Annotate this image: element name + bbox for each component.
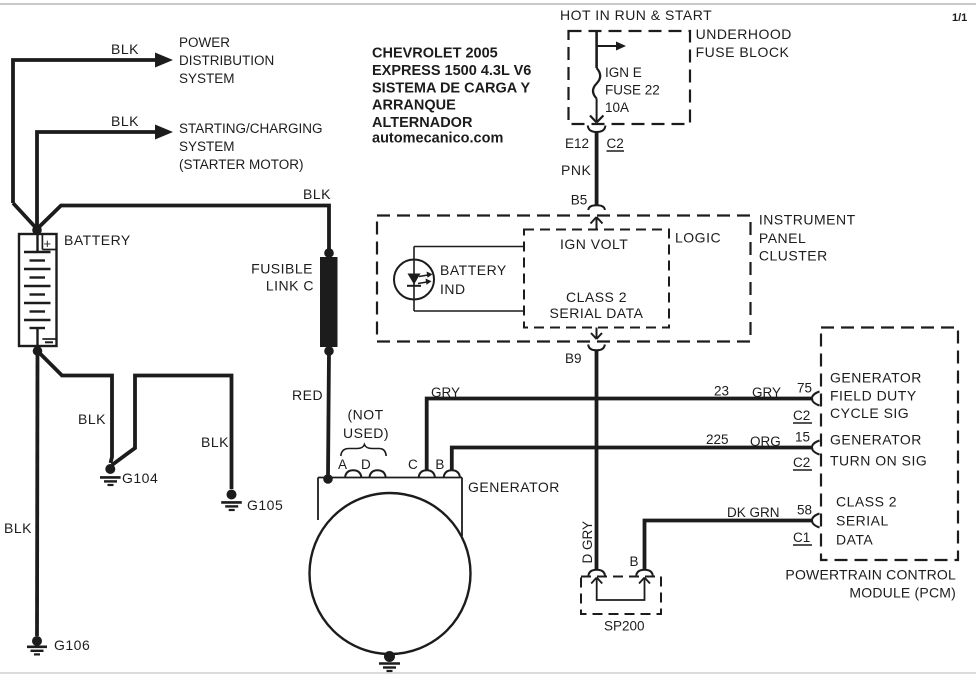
svg-text:SYSTEM: SYSTEM — [179, 71, 235, 86]
svg-text:IGN E: IGN E — [605, 65, 642, 80]
label INSTRUMENT PANEL CLUSTER — [759, 212, 856, 264]
wire DK GRN SP200 to PCM 58 — [645, 521, 814, 570]
svg-text:PANEL: PANEL — [759, 230, 806, 246]
generator pin C — [419, 470, 435, 477]
svg-text:FUSE 22: FUSE 22 — [605, 83, 660, 98]
svg-text:DATA: DATA — [836, 532, 873, 548]
svg-text:TURN ON SIG: TURN ON SIG — [830, 453, 927, 469]
svg-text:75: 75 — [797, 381, 812, 396]
svg-text:CLASS 2: CLASS 2 — [836, 494, 897, 510]
svg-text:B9: B9 — [565, 351, 582, 366]
connector C1 pin58 — [812, 514, 820, 528]
feed branch arrow — [597, 45, 617, 47]
svg-text:IND: IND — [440, 281, 466, 297]
ground G105 — [221, 490, 242, 511]
generator pin D — [369, 470, 385, 477]
svg-text:225: 225 — [706, 432, 729, 447]
label GENERATOR TURN ON SIG — [830, 432, 927, 469]
wire battery ind vertical — [413, 247, 415, 312]
svg-text:B5: B5 — [571, 193, 588, 208]
arrowhead power distribution — [155, 53, 173, 68]
node fusible link top — [324, 248, 334, 258]
label (NOT USED) — [343, 407, 389, 442]
logic dashed box — [524, 230, 669, 328]
B5 entry arrow — [596, 217, 598, 230]
label C1 pin58 — [793, 530, 810, 545]
underhood fuse block dashed box — [569, 31, 691, 124]
svg-text:POWER: POWER — [179, 35, 230, 50]
svg-text:GRY: GRY — [752, 385, 781, 400]
node battery negative junction — [33, 346, 43, 356]
svg-text:SP200: SP200 — [604, 619, 645, 634]
svg-text:FIELD DUTY: FIELD DUTY — [830, 388, 917, 404]
svg-text:FUSIBLE: FUSIBLE — [251, 261, 313, 277]
wire BLK to starting/charging system — [37, 132, 155, 229]
svg-text:MODULE (PCM): MODULE (PCM) — [849, 585, 956, 601]
svg-text:C2: C2 — [607, 136, 624, 151]
svg-text:CHEVROLET 2005: CHEVROLET 2005 — [372, 46, 498, 62]
svg-text:58: 58 — [797, 503, 812, 518]
svg-text:SERIAL: SERIAL — [836, 513, 889, 529]
svg-text:CYCLE SIG: CYCLE SIG — [830, 405, 909, 421]
label C2 pin15 — [793, 455, 810, 470]
svg-text:C1: C1 — [793, 530, 810, 545]
generator box — [318, 478, 462, 537]
node fusible link bottom — [324, 346, 334, 356]
connector C2 pin15 — [812, 441, 820, 455]
svg-text:INSTRUMENT: INSTRUMENT — [759, 212, 856, 228]
connector B5 dome — [588, 205, 605, 210]
svg-text:HOT IN RUN & START: HOT IN RUN & START — [560, 7, 712, 23]
svg-text:23: 23 — [714, 384, 729, 399]
label GENERATOR FIELD DUTY CYCLE SIG — [830, 370, 922, 422]
svg-text:ARRANQUE: ARRANQUE — [372, 98, 456, 114]
wire G104 to G105 — [112, 376, 232, 490]
generator body circle — [310, 493, 471, 654]
wire battery ind bottom — [414, 310, 524, 312]
svg-text:GENERATOR: GENERATOR — [830, 370, 922, 386]
svg-text:15: 15 — [795, 430, 810, 445]
svg-text:SISTEMA DE CARGA Y: SISTEMA DE CARGA Y — [372, 80, 531, 96]
fusible link C — [320, 257, 338, 347]
label IGN E FUSE 22 10A — [605, 65, 660, 115]
svg-text:BATTERY: BATTERY — [64, 232, 131, 248]
svg-text:automecanico.com: automecanico.com — [372, 131, 503, 147]
svg-text:FUSE BLOCK: FUSE BLOCK — [696, 44, 790, 60]
wire fuse to connector — [596, 99, 598, 122]
svg-text:BLK: BLK — [201, 434, 229, 450]
svg-text:STARTING/CHARGING: STARTING/CHARGING — [179, 121, 323, 136]
svg-text:B: B — [435, 457, 444, 472]
arrowhead into E12 — [590, 116, 603, 123]
generator pin B — [444, 470, 460, 477]
svg-text:POWERTRAIN CONTROL: POWERTRAIN CONTROL — [785, 567, 956, 583]
svg-text:1/1: 1/1 — [952, 12, 967, 24]
svg-text:GRY: GRY — [431, 385, 460, 400]
svg-text:RED: RED — [292, 387, 323, 403]
svg-text:B: B — [630, 554, 639, 569]
svg-text:BLK: BLK — [111, 113, 139, 129]
svg-text:BLK: BLK — [4, 520, 32, 536]
battery — [19, 234, 57, 346]
svg-text:SYSTEM: SYSTEM — [179, 139, 235, 154]
battery indicator lamp — [394, 260, 434, 300]
svg-text:PNK: PNK — [561, 162, 591, 178]
lamp arrow 1 — [419, 275, 428, 277]
wire battery negative to G104 — [38, 351, 113, 463]
arrowhead starting/charging — [155, 125, 173, 140]
svg-text:10A: 10A — [605, 100, 629, 115]
splice SP200 dashed box — [581, 577, 661, 615]
connector SP200 B dome — [636, 570, 653, 576]
wire battery positive to fusible link — [13, 203, 329, 253]
svg-text:D: D — [361, 457, 371, 472]
label CLASS 2 SERIAL DATA (PCM) — [836, 494, 897, 548]
svg-text:G105: G105 — [247, 497, 283, 513]
svg-text:C2: C2 — [793, 408, 810, 423]
wire fuse feed — [595, 31, 598, 68]
svg-text:GENERATOR: GENERATOR — [830, 432, 922, 448]
SP200 B entry arrow — [639, 578, 650, 584]
label POWERTRAIN CONTROL MODULE (PCM) — [785, 567, 956, 601]
wire D GRY cluster to SP200 — [595, 350, 599, 569]
top page rule — [0, 3, 976, 5]
svg-text:BLK: BLK — [303, 186, 331, 202]
wire PNK — [595, 132, 599, 205]
node battery positive junction — [32, 225, 42, 235]
svg-text:BLK: BLK — [78, 411, 106, 427]
svg-text:DISTRIBUTION: DISTRIBUTION — [179, 53, 274, 68]
node generator BAT terminal — [323, 474, 333, 484]
label BATTERY IND — [440, 262, 507, 297]
svg-text:EXPRESS 1500 4.3L V6: EXPRESS 1500 4.3L V6 — [372, 63, 531, 79]
bottom page rule — [0, 672, 976, 674]
svg-text:G104: G104 — [122, 470, 158, 486]
svg-text:A: A — [338, 457, 347, 472]
generator pin A — [345, 470, 361, 477]
svg-text:LOGIC: LOGIC — [675, 230, 721, 246]
svg-text:(NOT: (NOT — [348, 407, 384, 423]
connector B9 cup — [588, 345, 605, 351]
svg-text:CLASS 2: CLASS 2 — [566, 289, 627, 305]
svg-text:ORG: ORG — [750, 434, 781, 449]
generator ground — [379, 651, 400, 671]
svg-text:ALTERNADOR: ALTERNADOR — [372, 115, 473, 131]
svg-text:IGN VOLT: IGN VOLT — [560, 236, 628, 252]
SP200 D entry arrow — [591, 578, 602, 584]
svg-text:UNDERHOOD: UNDERHOOD — [696, 26, 792, 42]
wire BLK to power distribution — [13, 60, 155, 203]
svg-text:BATTERY: BATTERY — [440, 262, 507, 278]
label UNDERHOOD FUSE BLOCK — [696, 26, 792, 60]
title block — [372, 46, 531, 147]
label C2 pin75 — [793, 408, 810, 423]
lamp arrow 2 — [418, 282, 427, 284]
svg-text:C: C — [408, 457, 418, 472]
ground G106 — [27, 636, 47, 654]
instrument panel cluster dashed box — [377, 216, 751, 342]
label POWER DISTRIBUTION SYSTEM — [179, 35, 274, 86]
svg-text:(STARTER MOTOR): (STARTER MOTOR) — [179, 157, 304, 172]
svg-text:C2: C2 — [793, 455, 810, 470]
wire ORG generator B to PCM 15 — [452, 448, 813, 471]
connector E12/C2 cup — [588, 126, 606, 133]
wire GRY generator C to PCM 75 — [427, 399, 813, 471]
label CLASS 2 SERIAL DATA — [550, 289, 644, 321]
svg-text:CLUSTER: CLUSTER — [759, 248, 828, 264]
label STARTING/CHARGING SYSTEM (STARTER MOTOR) — [179, 121, 323, 172]
wire battery negative to G106 — [35, 351, 39, 636]
B9 exit arrow — [596, 328, 598, 340]
svg-text:D GRY: D GRY — [580, 521, 595, 564]
svg-text:USED): USED) — [343, 425, 389, 441]
svg-text:BLK: BLK — [111, 41, 139, 57]
powertrain control module dashed box — [821, 328, 958, 561]
svg-text:SERIAL DATA: SERIAL DATA — [550, 305, 644, 321]
svg-text:+: + — [44, 236, 52, 251]
brace not used pins — [341, 445, 386, 457]
svg-text:GENERATOR: GENERATOR — [468, 479, 560, 495]
wire battery ind top — [414, 246, 524, 248]
connector C2 pin75 — [812, 392, 820, 406]
connector SP200 D dome — [588, 570, 605, 576]
label FUSIBLE LINK C — [251, 261, 314, 294]
ground G104 — [100, 464, 121, 485]
fuse 22 element — [593, 68, 600, 99]
svg-text:G106: G106 — [54, 637, 90, 653]
svg-text:LINK C: LINK C — [266, 278, 314, 294]
wire RED fusible link to generator — [328, 351, 329, 477]
svg-text:DK GRN: DK GRN — [727, 505, 780, 520]
SP200 internal link — [597, 578, 645, 601]
svg-text:E12: E12 — [565, 136, 589, 151]
